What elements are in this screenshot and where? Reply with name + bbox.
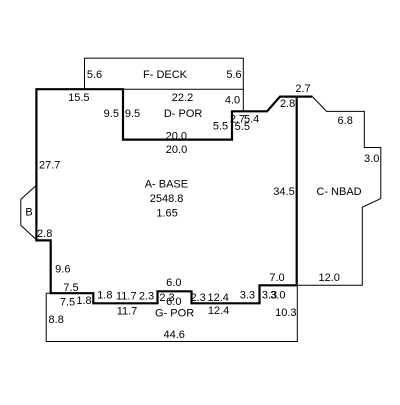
svg-text:D- POR: D- POR bbox=[164, 108, 203, 120]
svg-text:3.3: 3.3 bbox=[240, 290, 255, 302]
svg-text:2.8: 2.8 bbox=[37, 228, 52, 240]
svg-text:15.5: 15.5 bbox=[68, 92, 89, 104]
svg-text:3.0: 3.0 bbox=[270, 290, 285, 302]
svg-text:7.5: 7.5 bbox=[63, 282, 78, 294]
svg-text:C- NBAD: C- NBAD bbox=[316, 186, 361, 198]
svg-text:5.6: 5.6 bbox=[87, 69, 102, 81]
svg-text:9.5: 9.5 bbox=[125, 108, 140, 120]
svg-text:1.65: 1.65 bbox=[156, 207, 177, 219]
svg-text:G- POR: G- POR bbox=[155, 308, 194, 320]
svg-text:27.7: 27.7 bbox=[39, 159, 60, 171]
svg-text:11.7: 11.7 bbox=[117, 305, 138, 317]
svg-text:7.0: 7.0 bbox=[269, 272, 284, 284]
svg-text:2.3: 2.3 bbox=[190, 292, 205, 304]
svg-text:44.6: 44.6 bbox=[163, 329, 184, 341]
svg-text:2.7: 2.7 bbox=[295, 83, 310, 95]
svg-text:4.0: 4.0 bbox=[225, 95, 240, 107]
svg-text:2548.8: 2548.8 bbox=[150, 193, 184, 205]
svg-text:F- DECK: F- DECK bbox=[143, 69, 188, 81]
svg-text:9.5: 9.5 bbox=[104, 108, 119, 120]
svg-text:6.0: 6.0 bbox=[166, 277, 181, 289]
svg-text:1.8: 1.8 bbox=[97, 290, 112, 302]
svg-text:20.0: 20.0 bbox=[166, 130, 187, 142]
svg-text:34.5: 34.5 bbox=[273, 186, 294, 198]
svg-text:22.2: 22.2 bbox=[172, 92, 193, 104]
svg-text:12.0: 12.0 bbox=[318, 272, 339, 284]
svg-text:2.3: 2.3 bbox=[139, 290, 154, 302]
svg-text:8.8: 8.8 bbox=[49, 314, 64, 326]
svg-text:5.5: 5.5 bbox=[235, 121, 250, 133]
svg-text:A- BASE: A- BASE bbox=[145, 178, 188, 190]
svg-text:B: B bbox=[25, 206, 32, 218]
svg-text:20.0: 20.0 bbox=[166, 144, 187, 156]
svg-text:6.8: 6.8 bbox=[338, 115, 353, 127]
svg-text:12.4: 12.4 bbox=[208, 305, 229, 317]
svg-text:11.7: 11.7 bbox=[116, 290, 137, 302]
svg-text:3.0: 3.0 bbox=[364, 153, 379, 165]
svg-text:9.6: 9.6 bbox=[55, 263, 70, 275]
svg-text:10.3: 10.3 bbox=[275, 307, 296, 319]
svg-text:6.0: 6.0 bbox=[166, 296, 181, 308]
svg-text:5.6: 5.6 bbox=[226, 69, 241, 81]
svg-text:12.4: 12.4 bbox=[207, 292, 228, 304]
svg-text:7.5: 7.5 bbox=[60, 296, 75, 308]
svg-text:5.5: 5.5 bbox=[213, 121, 228, 133]
svg-text:1.8: 1.8 bbox=[76, 295, 91, 307]
svg-text:2.8: 2.8 bbox=[280, 98, 295, 110]
